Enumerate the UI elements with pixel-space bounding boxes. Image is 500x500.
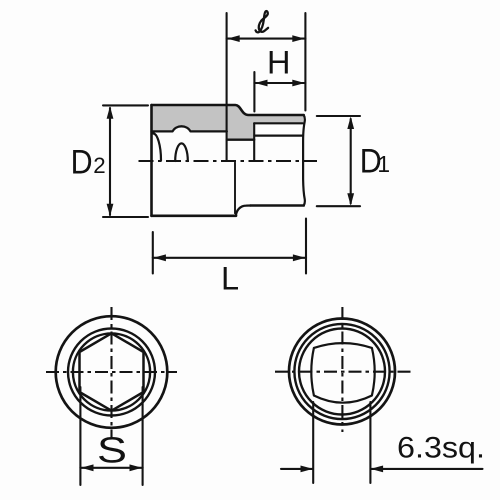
hex view horizontal centerline xyxy=(46,371,177,373)
L right extension line xyxy=(305,219,307,274)
socket body bottom edge xyxy=(152,215,237,218)
step shoulder line lower half xyxy=(234,163,236,214)
L arrowhead left xyxy=(153,254,166,261)
S arrowhead left xyxy=(81,464,94,471)
D2 arrow line xyxy=(109,108,111,215)
ball detent groove ellipse xyxy=(175,143,188,161)
socket body left edge xyxy=(150,105,153,216)
D2 arrowhead bottom xyxy=(107,204,114,217)
svg-text:D: D xyxy=(71,144,93,182)
D2 bottom tick xyxy=(103,216,148,218)
D2 top tick xyxy=(103,104,148,106)
dimension H left extension line xyxy=(253,72,255,112)
H arrowhead left xyxy=(255,80,268,87)
S left extension line xyxy=(79,387,81,485)
hex hole end wall vertical xyxy=(226,13,228,161)
square drive hole outline xyxy=(311,343,374,403)
D2 arrowhead top xyxy=(107,106,114,119)
hex view outer circle xyxy=(56,316,168,428)
square view outer circle xyxy=(289,319,395,425)
svg-text:6.3sq.: 6.3sq. xyxy=(397,431,485,464)
square view inner circle xyxy=(299,329,385,415)
square hole front wall vertical xyxy=(253,123,255,161)
dimension l right extension line xyxy=(304,13,306,111)
sq left extension line xyxy=(312,402,314,483)
sq arrowhead left (pointing right) xyxy=(301,466,314,473)
square view middle circle xyxy=(294,324,389,419)
S dimension line xyxy=(80,467,142,469)
sq dimension leader left xyxy=(281,468,313,470)
D1 arrowhead bottom xyxy=(347,193,354,206)
S arrowhead right xyxy=(130,464,143,471)
sq arrowhead right (pointing left) xyxy=(371,466,384,473)
svg-text:H: H xyxy=(267,44,290,80)
l arrowhead left xyxy=(227,35,240,42)
socket body section fill (gray) xyxy=(152,105,304,140)
hex view chamfer circle xyxy=(68,329,155,416)
hex view corner circle xyxy=(73,333,150,410)
D1 bottom tick xyxy=(317,205,360,207)
D1 arrow line xyxy=(350,119,352,203)
L dimension line xyxy=(153,257,306,259)
square view vertical centerline xyxy=(341,307,343,432)
hex view vertical centerline xyxy=(110,307,112,438)
drive end face xyxy=(303,115,305,206)
S right extension line xyxy=(142,387,144,485)
hex hole outline xyxy=(80,333,144,410)
svg-text:2: 2 xyxy=(93,153,105,178)
side view centerline xyxy=(139,160,318,162)
square view horizontal centerline xyxy=(275,371,411,373)
through hole wall xyxy=(227,139,254,141)
neck bottom edge xyxy=(251,204,304,207)
L arrowhead right xyxy=(293,254,306,261)
l arrowhead right xyxy=(292,35,305,42)
hex opening chamfer arc xyxy=(153,133,161,160)
label l script glyph xyxy=(256,11,269,32)
dimension l line xyxy=(227,38,306,40)
sq dimension leader right xyxy=(371,468,483,470)
svg-text:S: S xyxy=(97,430,127,471)
step fillet lower half xyxy=(236,206,251,216)
dimension H line xyxy=(254,82,305,84)
H arrowhead right xyxy=(292,80,305,87)
socket body outer top edge + step + neck top xyxy=(152,105,304,115)
square hole ceiling line lower xyxy=(255,135,303,137)
D1 top tick xyxy=(317,115,360,117)
L left extension line xyxy=(152,232,154,274)
hex hole wall with ball groove notch xyxy=(152,126,227,131)
svg-text:L: L xyxy=(221,261,239,297)
sq right extension line xyxy=(369,402,371,483)
square hole ceiling line upper xyxy=(254,122,302,124)
svg-text:1: 1 xyxy=(377,151,390,177)
D1 arrowhead top xyxy=(347,117,354,130)
